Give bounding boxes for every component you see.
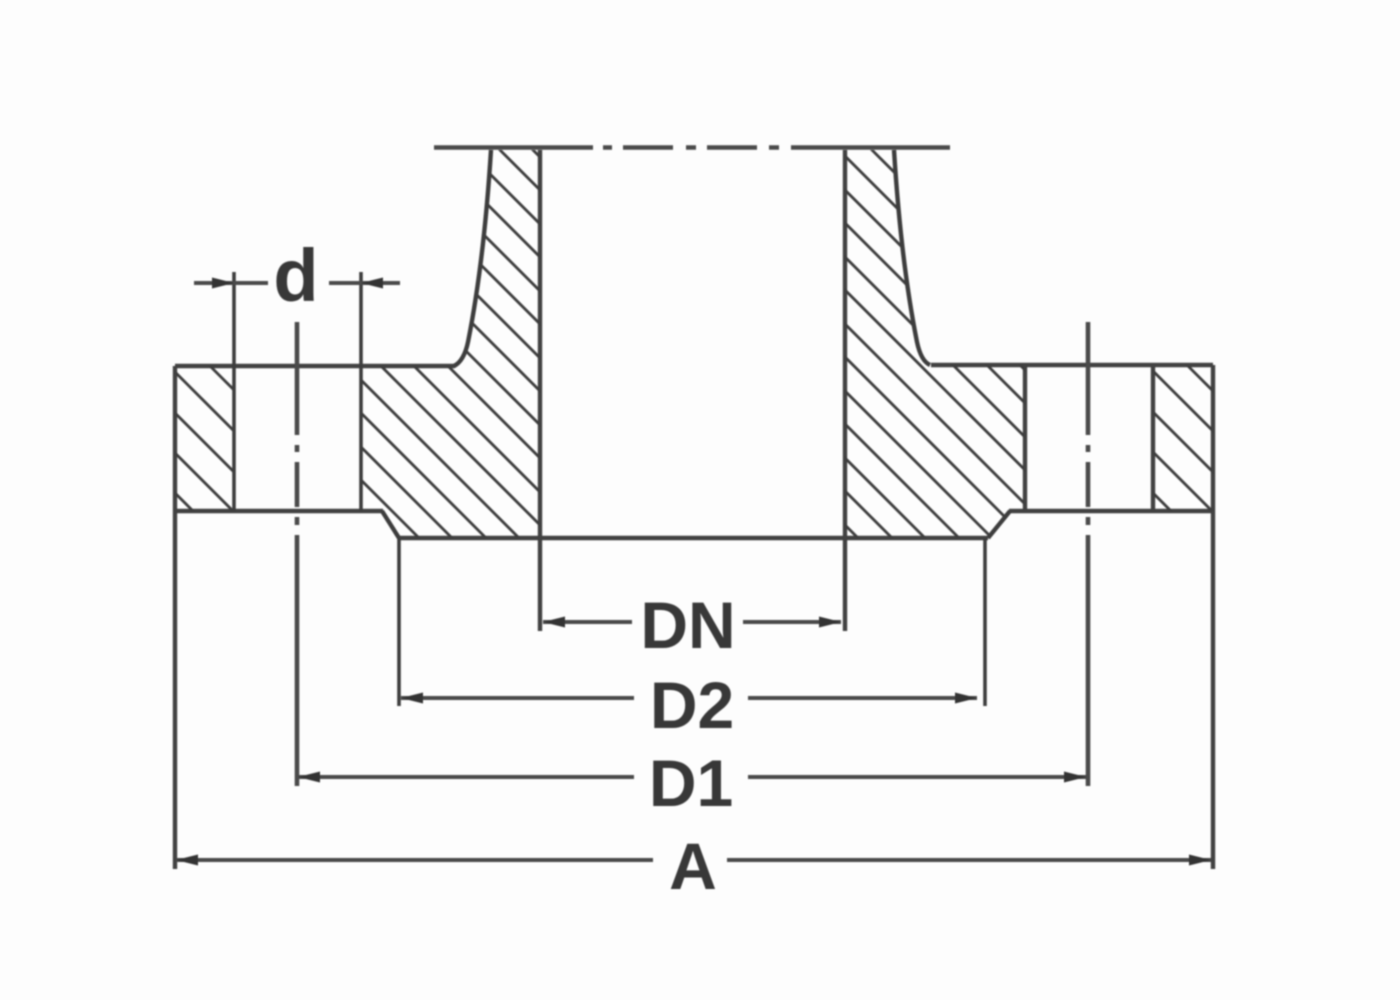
dimension A: dimension line xyxy=(176,858,1211,862)
hatching left outer ring xyxy=(100,256,400,718)
svg-text:DN: DN xyxy=(640,588,735,662)
flange right edge (with A extension line) xyxy=(1211,365,1215,869)
raised face right chamfer xyxy=(988,511,1010,538)
dimension d: left arrowhead (pointing right) xyxy=(212,278,234,289)
bolt hole left: left edge (with d extension above) xyxy=(232,272,236,511)
dimension D2: extension line right xyxy=(983,538,987,706)
svg-text:d: d xyxy=(273,234,318,317)
svg-text:D1: D1 xyxy=(649,746,733,820)
hub outer profile right xyxy=(894,150,930,365)
hatching flange/hub right of bore xyxy=(800,78,1200,880)
bolt hole centerline right (dash-dot vertical) xyxy=(1086,322,1091,786)
bolt hole right: right edge xyxy=(1151,365,1155,511)
bore wall right (with DN extension line) xyxy=(843,150,847,631)
flange top edge left xyxy=(175,364,455,368)
hub outer profile left xyxy=(454,150,491,366)
dimension DN: left arrowhead xyxy=(543,617,565,628)
dimension D2: dimension line xyxy=(401,696,977,700)
dimension D2: right arrowhead xyxy=(955,693,977,704)
flange left edge (with A extension line) xyxy=(173,366,177,869)
flange bottom edge right xyxy=(1009,509,1213,513)
dimension DN: dimension line xyxy=(543,620,841,624)
dimension D1: right arrowhead xyxy=(1064,772,1086,783)
svg-text:A: A xyxy=(669,829,717,903)
dimension A: right arrowhead xyxy=(1189,855,1211,866)
bolt hole centerline left (dash-dot vertical) xyxy=(295,322,300,786)
dimension d: right arrowhead (pointing left) xyxy=(361,278,383,289)
dimension D2: extension line left xyxy=(397,538,401,706)
dimension D2: left arrowhead xyxy=(401,693,423,704)
raised face left chamfer xyxy=(382,511,399,538)
svg-text:D2: D2 xyxy=(650,668,734,742)
dimension DN: right arrowhead xyxy=(819,617,841,628)
hatching right outer ring xyxy=(1100,278,1400,740)
bore wall left (with DN extension line) xyxy=(538,150,542,631)
hatching flange/hub left of bore xyxy=(300,0,700,819)
dimension D1: dimension line xyxy=(298,775,1086,779)
dimension D1: left arrowhead xyxy=(298,772,320,783)
dimension A: left arrowhead xyxy=(176,855,198,866)
bolt hole left: right edge (with d extension above) xyxy=(359,272,363,511)
raised face bottom edge xyxy=(399,536,988,540)
flange top edge right xyxy=(931,363,1213,367)
pipe axis centerline (horizontal dash-dot at top) xyxy=(434,145,950,150)
dimension d: dimension line tails xyxy=(194,281,400,285)
bolt hole right: left edge xyxy=(1023,365,1027,511)
flange bottom edge left xyxy=(175,509,383,513)
